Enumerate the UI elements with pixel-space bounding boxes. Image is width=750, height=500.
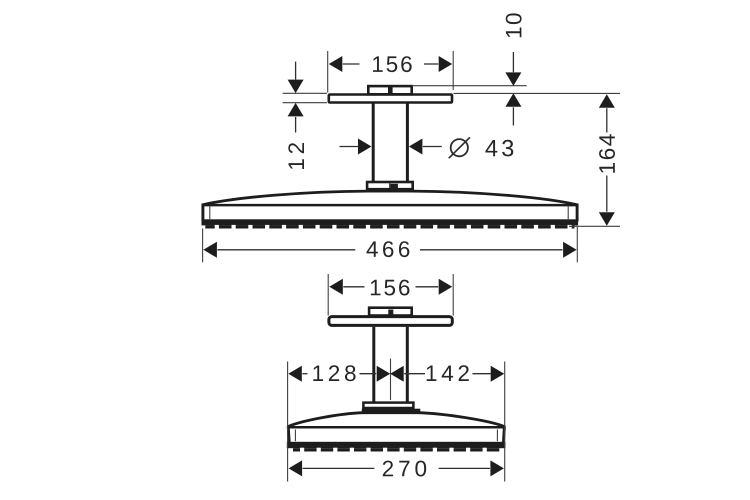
pipe flange at head (bottom view) <box>363 403 413 408</box>
dim 10: label (rotated) <box>506 13 522 37</box>
dim 12: reference lines (plate thickness) <box>283 92 327 94</box>
dim 128: arrows and line <box>288 366 302 382</box>
dim 156 bottom: extension lines <box>327 274 329 316</box>
dim 466: label <box>366 241 409 257</box>
dim diameter 43: label <box>485 140 513 157</box>
dim 128/142: extension lines <box>287 362 289 482</box>
shower head rim band (bottom view) <box>287 426 505 429</box>
dim 12: arrows and line <box>295 62 297 80</box>
plate top extension line (shared by dim 10 and dim 164) <box>454 92 621 94</box>
dim 164: arrows and line <box>599 94 615 108</box>
shower head dome (bottom view) <box>288 413 506 427</box>
ceiling plate (top view) <box>329 95 452 103</box>
dim 156 top: extension lines <box>327 51 329 93</box>
ceiling connector box (bottom view) <box>369 308 412 316</box>
centre axis line (bottom view) <box>390 359 392 401</box>
spray nozzles (bottom view) <box>293 448 499 451</box>
pipe (bottom view) <box>372 327 375 402</box>
dim 270: label <box>383 461 426 477</box>
dim 156 top: label <box>373 56 412 72</box>
dim 466: extension lines <box>202 229 204 263</box>
spray nozzles (top view) <box>205 225 574 228</box>
spray face strip (bottom view) <box>287 442 506 448</box>
dim 156 top: arrows and line <box>329 56 343 72</box>
pipe flange at head (top view) <box>367 182 413 189</box>
pipe (top view) <box>372 104 375 182</box>
dim 10: arrows and line <box>512 52 514 72</box>
dim 128: label <box>313 365 355 381</box>
dim 10: reference line from connector top <box>412 85 527 87</box>
dim 156 bottom: label <box>371 280 410 296</box>
dim 270: arrows and line <box>289 460 303 476</box>
dim 12: label (rotated) <box>288 143 304 169</box>
dim 142: arrows and line <box>390 366 404 382</box>
dim 466: arrows and line <box>203 242 217 258</box>
ceiling plate (bottom view) <box>329 317 452 326</box>
head bottom extension line (for dim 164) <box>569 225 620 227</box>
shower head rim band (top view) <box>202 204 577 207</box>
dim diameter 43: arrows and lines <box>340 146 359 148</box>
spray face strip (top view) <box>202 219 579 225</box>
ceiling connector box (top view) <box>368 86 411 94</box>
dim 164: label (rotated) <box>599 134 615 172</box>
dim diameter 43: diameter symbol <box>451 139 468 156</box>
shower head dome (top view) <box>202 191 577 205</box>
dim 156 bottom: arrows and line <box>329 279 343 295</box>
dim 142: label <box>427 365 469 381</box>
